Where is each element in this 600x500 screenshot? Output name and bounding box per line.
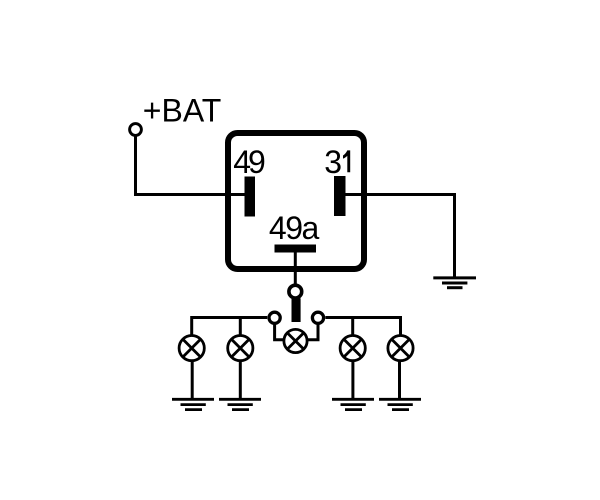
relay box U1 — [228, 133, 364, 269]
svg-text:3: 3 — [324, 144, 342, 180]
lamp 2 — [228, 336, 253, 361]
wire lamp4 to ground — [398, 361, 401, 400]
wire contact left to center lamp — [275, 324, 285, 340]
wire drop lamp4 — [399, 316, 402, 337]
armature pivot circle — [289, 285, 302, 298]
lamp 4 — [388, 336, 413, 361]
wire left bus — [192, 316, 268, 319]
pin 49 — [245, 177, 256, 217]
pin 31 — [334, 176, 346, 216]
wire lamp3 to ground — [351, 361, 354, 400]
svg-text:49: 49 — [233, 144, 265, 180]
lamp 1 — [179, 336, 204, 361]
wire right bus — [325, 316, 400, 319]
pin 49a — [275, 245, 317, 253]
ground 1 — [172, 399, 214, 409]
wire drop lamp1 — [190, 316, 193, 337]
contact circle left — [269, 312, 280, 323]
wire drop lamp2 — [239, 316, 242, 337]
ground 4 — [379, 399, 421, 409]
wire drop lamp3 — [351, 316, 354, 337]
ground 2 — [219, 399, 261, 409]
svg-text:49a: 49a — [269, 210, 320, 246]
wire pin 31 to ground — [340, 195, 455, 279]
svg-text:+BAT: +BAT — [143, 93, 222, 129]
wire lamp1 to ground — [191, 361, 194, 400]
lamp center — [284, 329, 307, 352]
contact circle right — [312, 312, 323, 323]
terminal +BAT — [130, 124, 142, 136]
ground 3 — [332, 399, 374, 409]
wire contact right to center lamp — [307, 324, 318, 340]
lamp 3 — [340, 336, 365, 361]
wire 49a to armature — [294, 250, 297, 286]
ground at 31 — [433, 278, 476, 288]
armature arm — [292, 298, 301, 322]
wire +BAT to pin 49 — [136, 136, 251, 195]
wire lamp2 to ground — [239, 361, 242, 400]
